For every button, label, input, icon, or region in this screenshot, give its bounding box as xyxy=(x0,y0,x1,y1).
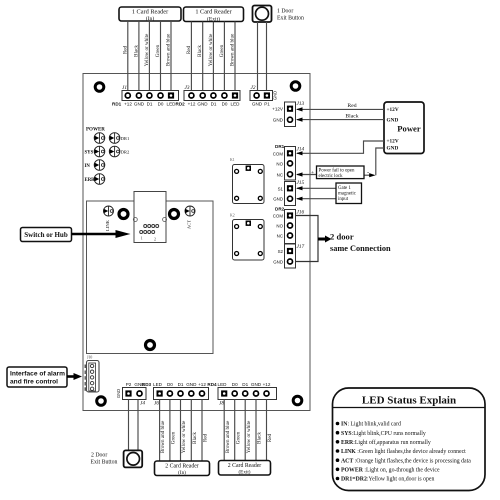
wire J6 LED brown-blue xyxy=(159,400,161,462)
svg-text:electric lock: electric lock xyxy=(319,174,344,179)
svg-text:+12: +12 xyxy=(124,102,132,107)
wire J8 LED brown-blue xyxy=(223,400,225,461)
LED status explain legend box xyxy=(333,388,486,491)
svg-text:LED: LED xyxy=(218,382,228,387)
wire button to J2 P1 xyxy=(266,22,268,91)
svg-text:RD3: RD3 xyxy=(142,382,152,387)
relay K2 xyxy=(230,214,264,261)
svg-text:LINK :Green light flashes,the: LINK :Green light flashes,the device alr… xyxy=(341,448,466,455)
svg-text:magnetic: magnetic xyxy=(338,192,357,197)
wire power GND down to lock minus xyxy=(376,148,384,175)
svg-text:GND: GND xyxy=(387,117,399,123)
svg-text:+12V: +12V xyxy=(387,107,399,113)
svg-text:2 door: 2 door xyxy=(330,232,354,242)
svg-text:1 Door: 1 Door xyxy=(277,9,293,15)
svg-text:J16: J16 xyxy=(297,210,305,216)
svg-text:K2: K2 xyxy=(230,214,235,218)
svg-text:POWER :Light on, go-through th: POWER :Light on, go-through the device xyxy=(341,468,440,474)
svg-text:IN: IN xyxy=(85,164,91,169)
RJ45 jack J5 xyxy=(133,192,166,243)
network sub-board outline xyxy=(87,201,214,354)
svg-text:GND: GND xyxy=(251,382,262,387)
svg-text:COM: COM xyxy=(273,214,284,219)
relay K1 xyxy=(230,158,264,204)
svg-text:RD4: RD4 xyxy=(207,382,217,387)
svg-text:Red: Red xyxy=(186,45,192,54)
svg-text:J6: J6 xyxy=(154,401,159,407)
wire J8 D0 green xyxy=(234,400,236,461)
status LED POWER xyxy=(86,128,105,144)
status LED IN xyxy=(85,160,105,171)
svg-text:GND: GND xyxy=(252,102,263,107)
status LED DR2 xyxy=(109,146,130,157)
status LED SYS xyxy=(85,146,105,157)
svg-text:Power fail to open: Power fail to open xyxy=(319,168,356,173)
svg-text:GND: GND xyxy=(186,382,197,387)
arrow switch-to-RJ45 xyxy=(72,233,118,236)
svg-text:SYS:Light blink,CPU runs norma: SYS:Light blink,CPU runs normally xyxy=(341,431,426,437)
wire J3 LED brown-blue xyxy=(234,22,236,91)
connector J13 xyxy=(272,101,304,127)
sub-board hole bottom xyxy=(146,341,155,350)
svg-text:1 Card Reader: 1 Card Reader xyxy=(195,9,232,16)
svg-text:RD2: RD2 xyxy=(176,102,186,107)
svg-text:GND: GND xyxy=(116,389,121,398)
wire J1 D1 yellow-white xyxy=(148,21,150,91)
connector J1 xyxy=(112,85,179,107)
svg-text:K1: K1 xyxy=(230,158,235,162)
connector J3 xyxy=(176,85,241,107)
wire J6 +12 red xyxy=(201,400,203,462)
svg-text:D0: D0 xyxy=(232,382,238,387)
svg-text:ERR: ERR xyxy=(85,178,96,183)
wire J1 LED brown-blue xyxy=(170,21,172,91)
svg-text:P1: P1 xyxy=(264,102,270,107)
wire lock minus arrow xyxy=(364,174,370,176)
svg-text:D1: D1 xyxy=(211,102,217,107)
power supply box xyxy=(384,102,424,154)
status LED ERR xyxy=(85,174,105,185)
wire J15 GND to gate sensor xyxy=(297,198,336,200)
wire J1 GND black xyxy=(138,21,140,91)
mounting hole bottom-left xyxy=(97,397,106,406)
connector J4 xyxy=(116,382,146,407)
svg-text:Exit Button: Exit Button xyxy=(91,460,118,466)
switch or hub callout xyxy=(21,228,72,242)
wire J13 +12V red xyxy=(297,108,384,110)
svg-text:DR2: DR2 xyxy=(275,207,285,212)
svg-text:NC: NC xyxy=(277,172,283,177)
wire J6 D1 yellow-white xyxy=(180,400,182,462)
svg-text:D1: D1 xyxy=(147,102,153,107)
connector J6 xyxy=(142,382,209,407)
svg-text:GND: GND xyxy=(273,197,283,202)
wire J1 D0 green xyxy=(160,21,162,91)
svg-text:DR1=DR2:Yellow light on,door i: DR1=DR2:Yellow light on,door is open xyxy=(341,477,434,483)
svg-text:Yellow or white: Yellow or white xyxy=(208,33,214,66)
svg-text:NC: NC xyxy=(277,234,283,239)
mounting hole top-right xyxy=(291,82,300,91)
svg-text:GND: GND xyxy=(387,145,399,151)
connector J2 xyxy=(250,85,278,107)
connector J17 xyxy=(273,244,304,268)
wire button to J2 GND xyxy=(257,22,259,91)
mounting hole bottom-right xyxy=(293,396,302,405)
connector J15 xyxy=(273,180,304,206)
main controller board outline xyxy=(83,74,310,411)
svg-text:J17: J17 xyxy=(297,244,305,250)
svg-text:RD1: RD1 xyxy=(112,102,122,107)
svg-text:SYS: SYS xyxy=(85,151,94,156)
svg-text:+12: +12 xyxy=(198,382,206,387)
svg-text:Black: Black xyxy=(345,113,358,119)
svg-text:D1: D1 xyxy=(178,382,184,387)
svg-text:DR1: DR1 xyxy=(275,144,285,149)
svg-text:COM: COM xyxy=(273,151,284,156)
svg-text:Power: Power xyxy=(397,124,421,134)
svg-text:-: - xyxy=(367,169,369,176)
svg-text:GND: GND xyxy=(273,118,284,123)
wire J4 GND to button xyxy=(137,400,139,451)
svg-text:1 Card Reader: 1 Card Reader xyxy=(132,9,169,16)
svg-text:Green: Green xyxy=(235,431,241,444)
svg-text:J13: J13 xyxy=(297,101,305,107)
svg-text:2 Card Reader: 2 Card Reader xyxy=(165,464,199,470)
svg-text:Black: Black xyxy=(133,45,139,57)
svg-text:GND: GND xyxy=(273,260,283,265)
svg-text:D0: D0 xyxy=(167,382,173,387)
svg-text:J14: J14 xyxy=(297,147,305,153)
svg-text:LED: LED xyxy=(231,102,241,107)
svg-text:same Connection: same Connection xyxy=(330,244,391,253)
svg-text:J10: J10 xyxy=(87,356,92,360)
svg-text:Interface of alarm: Interface of alarm xyxy=(10,371,65,378)
card reader box 3 (In) xyxy=(155,461,210,476)
wire J15 S1 to gate sensor xyxy=(297,187,336,189)
2 door arrow xyxy=(318,238,326,241)
svg-text:J15: J15 xyxy=(297,180,305,186)
svg-text:+12: +12 xyxy=(188,102,196,107)
2 door exit button SW2 xyxy=(91,450,143,467)
1 door exit button SW1 xyxy=(253,6,304,23)
svg-text:S2: S2 xyxy=(278,249,284,254)
svg-text:GND: GND xyxy=(273,91,278,100)
svg-text:+12V: +12V xyxy=(387,138,399,144)
svg-text:Green: Green xyxy=(171,431,177,444)
svg-text:Yellow or white: Yellow or white xyxy=(246,420,252,453)
connector J14 xyxy=(273,144,305,180)
svg-text:Switch or Hub: Switch or Hub xyxy=(24,231,68,239)
LED LINK xyxy=(104,206,114,231)
wire J6 D0 green xyxy=(169,400,171,462)
mounting hole top-left xyxy=(95,83,104,92)
svg-text:IN: Light blink,valid card: IN: Light blink,valid card xyxy=(341,422,401,428)
svg-text:J8: J8 xyxy=(219,401,224,407)
svg-text:S1: S1 xyxy=(278,186,284,191)
svg-text:GND: GND xyxy=(134,102,145,107)
svg-text:+: + xyxy=(311,170,314,176)
wire J6 GND black xyxy=(190,400,192,462)
wire power +12V to J14 COM xyxy=(297,141,384,153)
wire J1 +12 red xyxy=(127,21,129,91)
wire J8 +12 red xyxy=(266,400,268,461)
svg-text:Yellow or white: Yellow or white xyxy=(181,420,187,453)
svg-text:Brown and blue: Brown and blue xyxy=(160,420,166,453)
svg-text:LED Status Explain: LED Status Explain xyxy=(362,395,456,407)
wire J3 GND black xyxy=(202,22,204,91)
svg-text:Exit Button: Exit Button xyxy=(277,16,304,22)
interface of alarm callout xyxy=(7,367,67,387)
LED ACT xyxy=(185,206,195,229)
svg-text:GND: GND xyxy=(197,102,208,107)
svg-text:Brown and blue: Brown and blue xyxy=(230,33,236,66)
svg-text:Black: Black xyxy=(192,432,198,444)
svg-text:and fire control: and fire control xyxy=(10,379,58,386)
svg-text:Green: Green xyxy=(219,44,225,57)
svg-text:D0: D0 xyxy=(158,102,164,107)
wire J3 D1 yellow-white xyxy=(212,22,214,91)
electric lock box xyxy=(317,166,365,179)
svg-text:2 Card Reader: 2 Card Reader xyxy=(228,463,262,469)
svg-text:Red: Red xyxy=(122,45,128,54)
svg-text:Red: Red xyxy=(267,433,273,442)
wire J3 D0 green xyxy=(223,22,225,91)
arrow alarm-to-J10 xyxy=(67,375,75,378)
connector J8 xyxy=(207,382,276,407)
sub-board hole right xyxy=(170,210,179,219)
svg-text:Yellow or white: Yellow or white xyxy=(144,33,150,66)
wire J8 D1 yellow-white xyxy=(244,400,246,461)
svg-text:Black: Black xyxy=(197,45,203,57)
svg-text:LINK: LINK xyxy=(105,219,110,231)
svg-text:Black: Black xyxy=(257,432,263,444)
svg-text:(In): (In) xyxy=(178,469,186,476)
wire J13 GND black xyxy=(297,119,384,121)
svg-text:Red: Red xyxy=(203,433,209,442)
svg-text:(In): (In) xyxy=(146,15,155,22)
svg-text:1: 1 xyxy=(141,236,143,241)
svg-text:ACT :Orange light flashes,the: ACT :Orange light flashes,the device is … xyxy=(341,457,471,464)
svg-text:Brown and blue: Brown and blue xyxy=(166,33,172,66)
connector J10 alarm interface xyxy=(85,356,100,393)
svg-text:D0: D0 xyxy=(222,102,228,107)
svg-text:LED: LED xyxy=(153,382,163,387)
svg-text:NO: NO xyxy=(276,224,283,229)
svg-text:NO: NO xyxy=(276,161,283,166)
wire J4 P2 to button xyxy=(128,400,130,451)
svg-text:ERR:Light off,apparatus run no: ERR:Light off,apparatus run normally xyxy=(341,439,431,446)
connector J16 xyxy=(273,207,305,244)
svg-text:DR1: DR1 xyxy=(121,136,130,141)
wire J8 GND black xyxy=(255,400,257,461)
svg-text:Green: Green xyxy=(155,44,161,57)
card reader box 1 (In) xyxy=(119,7,181,22)
wire J14 NC to lock plus xyxy=(297,174,317,176)
sub-board hole left xyxy=(119,210,128,219)
svg-text:DR2: DR2 xyxy=(121,150,130,155)
svg-text:input: input xyxy=(338,197,349,202)
svg-text:+12V: +12V xyxy=(272,107,284,112)
svg-text:ACT: ACT xyxy=(186,220,191,229)
svg-text:+12: +12 xyxy=(263,382,271,387)
card reader box 2 (Exit) xyxy=(184,7,244,22)
svg-text:D1: D1 xyxy=(242,382,248,387)
svg-text:P2: P2 xyxy=(126,382,132,387)
card reader box 4 (Exit) xyxy=(219,461,271,476)
svg-text:J4: J4 xyxy=(140,401,145,407)
svg-text:(Exit): (Exit) xyxy=(238,469,250,476)
wire J16 COM loop to J17 GND xyxy=(296,216,319,262)
status LED DR1 xyxy=(109,133,130,144)
svg-text:Red: Red xyxy=(347,103,356,109)
svg-text:Brown and blue: Brown and blue xyxy=(225,420,231,453)
svg-text:Gate 1: Gate 1 xyxy=(338,186,351,191)
wire J3 +12 red xyxy=(190,22,192,91)
svg-text:2: 2 xyxy=(154,237,156,242)
svg-text:(Exit): (Exit) xyxy=(207,15,220,22)
gate magnetic input box xyxy=(336,183,362,204)
svg-text:2 Door: 2 Door xyxy=(91,453,107,459)
svg-text:POWER: POWER xyxy=(86,128,105,133)
